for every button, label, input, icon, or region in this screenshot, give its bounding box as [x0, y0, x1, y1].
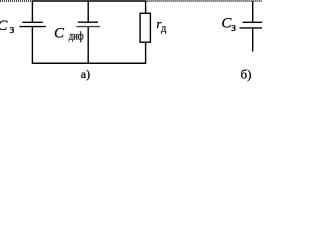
wire top rail a [32, 0, 146, 2]
svg-text:диф: диф [69, 29, 84, 43]
capacitor C3(b) bottom plate [240, 27, 264, 29]
svg-text:а): а) [81, 67, 90, 81]
wire left branch lower lead [31, 27, 33, 64]
svg-text:д: д [161, 24, 167, 35]
svg-text:С: С [54, 26, 65, 42]
capacitor C3(a) top plate [22, 21, 43, 23]
svg-text:С: С [0, 18, 8, 34]
wire resistor lower lead [145, 42, 147, 64]
wire dotted top-left segment [0, 0, 32, 2]
capacitor Cdif top plate [78, 21, 98, 23]
wire dotted top-right segment [147, 0, 262, 2]
wire C3(b) lower lead [252, 28, 254, 51]
label C3 (b) [221, 15, 236, 34]
wire left branch upper lead [31, 1, 33, 22]
label rd [156, 16, 167, 35]
capacitor C3(b) top plate [243, 21, 264, 23]
svg-text:з: з [9, 22, 14, 36]
wire resistor upper lead [145, 1, 147, 13]
label Cdif [54, 26, 84, 43]
svg-text:з: з [231, 20, 236, 34]
wire bottom rail a [32, 62, 146, 64]
capacitor Cdif bottom plate [76, 26, 100, 28]
svg-text:б): б) [241, 66, 252, 81]
resistor rd body [140, 13, 150, 42]
wire Cdif upper lead [87, 1, 89, 22]
capacitor C3(a) bottom plate [19, 26, 45, 28]
wire C3(b) upper lead [252, 1, 254, 22]
label C3 (a) [0, 18, 14, 36]
wire Cdif lower lead [87, 27, 89, 64]
